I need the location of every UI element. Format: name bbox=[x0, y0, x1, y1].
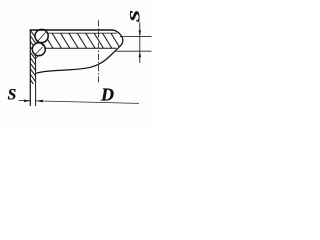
circle C2 white fill (lower wire/curl circle) bbox=[32, 43, 45, 56]
nose + sweep curve (rounded right end, inner surface sweeping to wall) bbox=[36, 30, 123, 73]
dash-dot centerline bbox=[98, 20, 100, 84]
svg-text:S: S bbox=[8, 86, 17, 103]
S bottom-left dimension: left segment + arrow bbox=[19, 100, 31, 102]
band bottom line bbox=[44, 47, 116, 49]
hatch line inside C2 bbox=[34, 47, 43, 56]
short hatch line inside C2 lower part bbox=[36, 55, 40, 59]
arrowhead down at line A bbox=[139, 30, 142, 36]
waist hatch segment crossing between circles bbox=[37, 40, 46, 48]
wall hatch (section of vertical wall) bbox=[29, 29, 38, 90]
svg-text:D: D bbox=[100, 85, 114, 105]
extension line B (right, bottom) bbox=[116, 50, 152, 52]
arrowhead up at line B bbox=[139, 51, 142, 57]
S bottom-left dimension: right segment (D dim line) + arrow bbox=[36, 101, 139, 104]
top thick line bbox=[30, 29, 114, 31]
S right dimension vertical line bbox=[139, 22, 141, 63]
band hatch (section of horizontal band) bbox=[43, 32, 129, 49]
extension line A (right, top) bbox=[120, 35, 152, 37]
circle C2 outline bbox=[32, 43, 45, 56]
hatch line inside C1 bbox=[36, 31, 47, 43]
inner wall line bbox=[35, 55, 37, 106]
second line (top of hatched band) bbox=[48, 32, 117, 34]
svg-text:S: S bbox=[126, 10, 143, 22]
circle C1 white fill (upper wire/curl circle) bbox=[35, 29, 48, 42]
outer wall line bbox=[29, 29, 31, 106]
circle C1 outline bbox=[35, 29, 48, 42]
